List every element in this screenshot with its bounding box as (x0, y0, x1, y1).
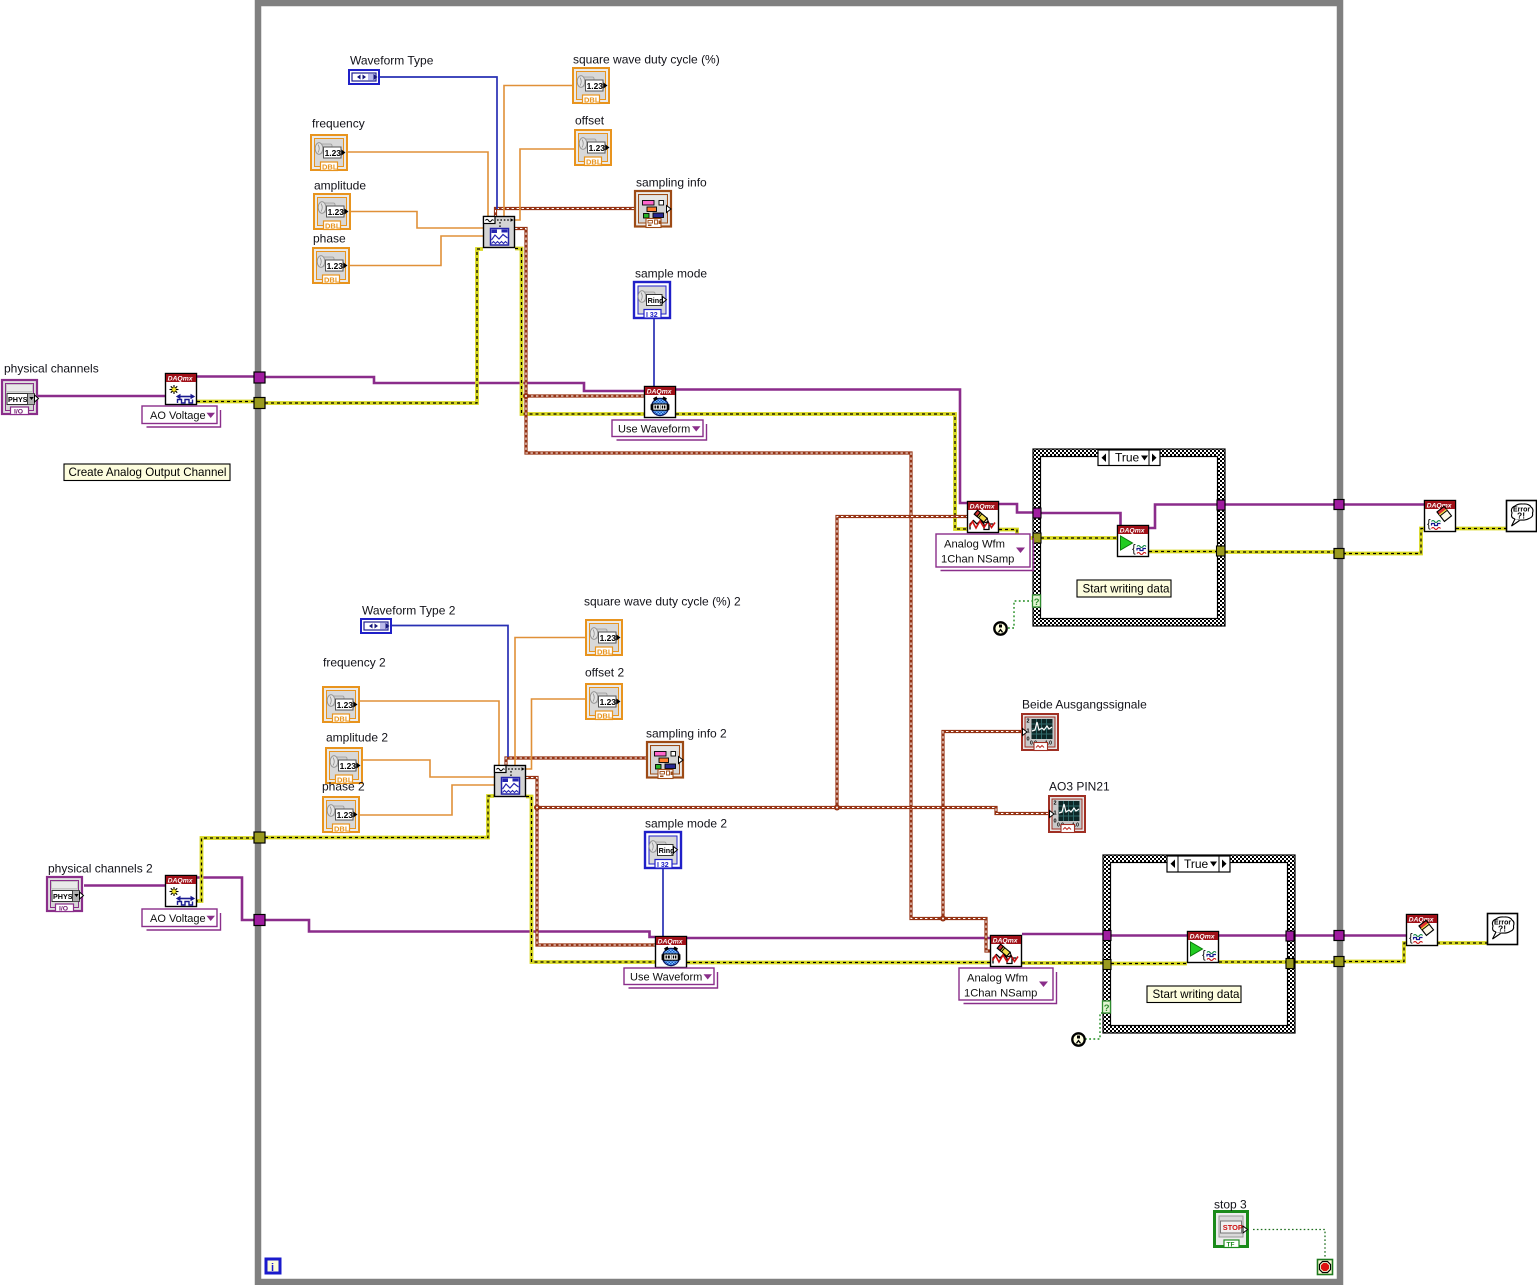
numeric control phase (313, 248, 349, 285)
svg-text:1Chan NSamp: 1Chan NSamp (941, 554, 1014, 566)
VI DAQmx Start 2 (1188, 932, 1219, 963)
wire blue: sample mode to Timing1 (653, 319, 655, 386)
wire error: loop to Clear1 (1343, 529, 1424, 554)
wire error: Create2 up to loop tunnel (195, 838, 254, 901)
ring control sample mode 2 (645, 832, 681, 869)
free label Start writing data 1 (1077, 580, 1171, 597)
control physical channels (2, 380, 39, 416)
control physical channels 2 (47, 877, 84, 913)
wire orange: amplitude to FG1 (351, 212, 483, 229)
numeric control offset 2 (586, 684, 622, 721)
svg-text:offset 2: offset 2 (585, 666, 624, 680)
case2 tunnel error left (1103, 960, 1111, 970)
wire error: case2 to loop tunnel (1295, 960, 1334, 964)
numeric control square wave duty cycle (573, 68, 609, 105)
indicator error out 1 (1507, 501, 1537, 532)
wire orange: amplitude 2 to FG2 (363, 760, 494, 777)
wire error: Timing2 to Write2 (687, 961, 990, 965)
svg-text:phase 2: phase 2 (322, 780, 365, 794)
svg-text:AO Voltage: AO Voltage (150, 410, 206, 422)
free label Start writing data 2 (1147, 986, 1241, 1003)
enum control Waveform Type (349, 70, 379, 84)
svg-text:Start writing data: Start writing data (1153, 988, 1241, 1001)
svg-text:sampling info 2: sampling info 2 (646, 727, 727, 741)
case1 tunnel purple left (1033, 508, 1041, 518)
wire error: FG2 to Timing2 (526, 797, 655, 963)
loop tunnel error 2 left (254, 832, 265, 843)
numeric control offset (575, 130, 611, 167)
wire purple task: Write2 to case2 tunnel (1022, 933, 1103, 936)
wire error: loop to Clear2 (1343, 943, 1406, 962)
svg-text:amplitude: amplitude (314, 179, 366, 193)
cluster indicator sampling info 2 (647, 742, 683, 779)
VI DAQmx Timing 1 (645, 387, 676, 418)
case2 selector ? tunnel (1103, 1001, 1111, 1013)
svg-text:Use Waveform: Use Waveform (618, 424, 690, 436)
wire error: case1 to loop right tunnel (1225, 550, 1334, 554)
wire boolean dotted: first call 2 to case2 tunnel (1085, 1013, 1103, 1039)
svg-text:i: i (271, 1262, 274, 1274)
case1 selector ? tunnel (1033, 595, 1041, 607)
wire error: case2 tunnel to Start2 (1111, 962, 1187, 966)
enum control Waveform Type 2 (361, 619, 391, 633)
wire error: Start1 to case1 right tunnel (1149, 550, 1217, 554)
wire blue: Waveform Type to FG1 (380, 77, 497, 209)
selector AO Voltage 2 (142, 909, 221, 930)
svg-text:sampling info: sampling info (636, 176, 707, 190)
numeric control phase 2 (323, 797, 359, 834)
VI Basic Function Generator 1 (484, 217, 515, 248)
cluster indicator sampling info (635, 191, 671, 228)
wire error: Clear2 to error out 2 (1437, 941, 1487, 945)
wire error: Create1 to loop tunnel (197, 400, 254, 404)
wire waveform: branch to Timing1 (526, 394, 645, 397)
svg-text:True: True (1115, 451, 1140, 465)
graph indicator Beide Ausgangssignale (1022, 714, 1058, 751)
wire orange: phase to FG1 (350, 236, 483, 266)
svg-text:TF: TF (1227, 1242, 1235, 1249)
wire orange: phase 2 to FG2 (360, 785, 494, 815)
wire purple task: case1 tunnel to Start1 (1041, 513, 1121, 525)
numeric control frequency 2 (323, 687, 359, 724)
wire error: Write1 to case1 tunnel (999, 530, 1033, 539)
loop tunnel error 1 right (1334, 549, 1344, 559)
svg-text:AO3 PIN21: AO3 PIN21 (1049, 780, 1110, 794)
wire orange: duty cycle 2 to FG2 (515, 638, 585, 766)
svg-text:offset: offset (575, 114, 605, 128)
loop tunnel purple 2 right (1334, 931, 1344, 941)
svg-text:?: ? (1034, 597, 1040, 608)
case1 tunnel error left (1033, 533, 1041, 543)
svg-text:phase: phase (313, 232, 346, 246)
wire error: Timing1 to Write1 (676, 414, 967, 529)
wire error: Clear1 to error out 1 (1456, 527, 1506, 531)
svg-text:Create Analog Output Channel: Create Analog Output Channel (69, 466, 227, 479)
graph indicator AO3 PIN21 (1049, 796, 1085, 833)
svg-text:Analog Wfm: Analog Wfm (944, 539, 1005, 551)
wire error: case1 tunnel to Start1 (1041, 536, 1117, 540)
svg-text:1Chan NSamp: 1Chan NSamp (964, 988, 1037, 1000)
case2 tunnel purple right (1286, 931, 1294, 941)
selector AO Voltage 1 (142, 406, 221, 427)
node First Call? 1 (994, 622, 1006, 634)
svg-text:physical channels 2: physical channels 2 (48, 862, 153, 876)
case2 tunnel purple left (1103, 931, 1111, 941)
wire purple task: case2 to loop tunnel right (1295, 934, 1334, 937)
VI Basic Function Generator 2 (495, 766, 526, 797)
case2 tunnel error right (1286, 959, 1294, 969)
wire orange: offset to FG1 (515, 149, 574, 220)
loop tunnel error 1 left (254, 398, 265, 409)
wire purple task: loop to Clear2 (1343, 934, 1406, 937)
numeric control square wave duty cycle 2 (586, 620, 622, 657)
wire error: tunnel to FG2 (265, 796, 494, 838)
wire waveform: sampling info 1 to FG1 (496, 209, 635, 217)
svg-text:amplitude 2: amplitude 2 (326, 731, 388, 745)
ring control sample mode (634, 282, 670, 319)
indicator error out 2 (1488, 914, 1518, 945)
svg-text:frequency 2: frequency 2 (323, 656, 386, 670)
svg-text:square wave duty cycle (%) 2: square wave duty cycle (%) 2 (584, 595, 741, 609)
svg-text:True: True (1184, 857, 1209, 871)
svg-text:stop 3: stop 3 (1214, 1198, 1247, 1212)
svg-text:sample mode 2: sample mode 2 (645, 817, 727, 831)
wire error: tunnel to FG1 (265, 249, 483, 403)
case1 tunnel purple right (1217, 500, 1225, 510)
wire purple task: physical channels 2 to Create2 (84, 884, 165, 887)
VI DAQmx Create Channel 2 (166, 876, 197, 907)
while loop border (258, 3, 1340, 1282)
svg-text:sample mode: sample mode (635, 267, 707, 281)
wire waveform: sampling info 2 to FG2 (506, 758, 647, 765)
svg-text:Start writing data: Start writing data (1083, 583, 1171, 596)
wire error: Write2 to case2 tunnel (1022, 961, 1103, 965)
wire blue: Waveform Type 2 to FG2 (391, 626, 508, 758)
wire purple task: Create2 to loop tunnel 2 (197, 878, 254, 921)
wire purple task: Timing2 to Write2 (687, 937, 990, 940)
svg-text:Analog Wfm: Analog Wfm (967, 973, 1028, 985)
svg-text:Waveform Type: Waveform Type (350, 54, 434, 68)
wire orange: frequency to FG1 (347, 152, 488, 216)
wire waveform: junction to Write2 (943, 919, 990, 952)
VI DAQmx Clear 1 (1425, 501, 1456, 532)
wire purple task: Write1 to case1 tunnel (999, 504, 1033, 513)
loop tunnel purple 2 left (254, 915, 265, 926)
VI DAQmx Timing 2 (656, 937, 687, 968)
case1 tunnel error right (1217, 546, 1226, 556)
svg-text:square wave duty cycle (%): square wave duty cycle (%) (573, 53, 720, 67)
selector Use Waveform 2 (624, 968, 718, 988)
numeric control amplitude (314, 194, 350, 231)
re-draw wires inside cases above white fill (1041, 505, 1286, 964)
svg-text:Beide Ausgangssignale: Beide Ausgangssignale (1022, 698, 1147, 712)
case structure True 2 (1103, 855, 1295, 1033)
case structure True 1 (1033, 449, 1225, 626)
wire purple task: Create1 to loop tunnel (197, 375, 254, 378)
wire purple task: Start1 to case1 right tunnel (1149, 505, 1217, 529)
wire boolean dotted: first call 1 to case1 tunnel (1008, 601, 1033, 628)
boolean control stop 3 (1215, 1212, 1248, 1249)
loop tunnel error 2 right (1334, 957, 1344, 967)
wire purple task: tunnel2 to Timing2 (265, 920, 655, 937)
wire error: FG1 to Timing1 (515, 249, 645, 415)
svg-text:STOP: STOP (1223, 1223, 1243, 1232)
wire purple task: physical channels to Create1 (36, 395, 165, 398)
VI DAQmx Write 1 (968, 502, 999, 533)
svg-text:Use Waveform: Use Waveform (630, 972, 702, 984)
svg-text:AO Voltage: AO Voltage (150, 913, 206, 925)
VI DAQmx Write 2 (991, 936, 1022, 967)
wire waveform: branch up to Beide graph (943, 732, 1021, 919)
loop condition terminal (1318, 1260, 1333, 1275)
wire waveform: FG2 out down to Timing2 (526, 778, 655, 946)
loop tunnel purple 1 right (1334, 500, 1344, 510)
wire error: Start2 to case2 right tunnel (1219, 960, 1286, 964)
wire waveform: FG2 branch to AO3 graph (537, 808, 1048, 814)
wire purple task: case2 tunnel to Start2 (1111, 934, 1187, 937)
wire purple task: tunnel to Timing1 (265, 377, 645, 391)
wire boolean dotted: stop to loop condition (1253, 1230, 1325, 1259)
numeric control frequency (311, 135, 347, 172)
wire purple task: Timing1 to Write1 (676, 390, 967, 504)
selector Analog Wfm 1Chan NSamp 1 (936, 534, 1034, 571)
junction dots (523, 393, 529, 399)
svg-text:?: ? (1104, 1003, 1110, 1014)
svg-text:frequency: frequency (312, 117, 365, 131)
node First Call? 2 (1072, 1033, 1084, 1045)
VI DAQmx Start 1 (1118, 526, 1149, 557)
wire waveform: branch up to Write1 (837, 517, 967, 808)
loop tunnel purple 1 left (254, 372, 265, 383)
wire waveform: FG1 out down and across (515, 229, 943, 919)
selector Analog Wfm 1Chan NSamp 2 (959, 968, 1057, 1004)
VI DAQmx Create Channel 1 (166, 374, 197, 405)
wire blue: sample mode 2 to Timing2 (662, 868, 664, 936)
wire orange: frequency 2 to FG2 (360, 701, 499, 765)
selector Use Waveform 1 (612, 420, 707, 440)
wire orange: duty cycle to FG1 (504, 86, 572, 217)
wire orange: offset 2 to FG2 (526, 699, 585, 769)
wire purple task: loop to Clear1 (1343, 503, 1424, 506)
wire purple task: case1 to loop tunnel right (1225, 503, 1334, 506)
free label Create Analog Output Channel (64, 464, 230, 481)
wire purple task: Start2 to case2 right tunnel (1219, 934, 1286, 937)
svg-text:Waveform Type 2: Waveform Type 2 (362, 604, 456, 618)
VI DAQmx Clear 2 (1407, 915, 1438, 946)
svg-text:physical channels: physical channels (4, 362, 99, 376)
numeric control amplitude 2 (326, 748, 362, 785)
loop iteration terminal (266, 1259, 280, 1274)
